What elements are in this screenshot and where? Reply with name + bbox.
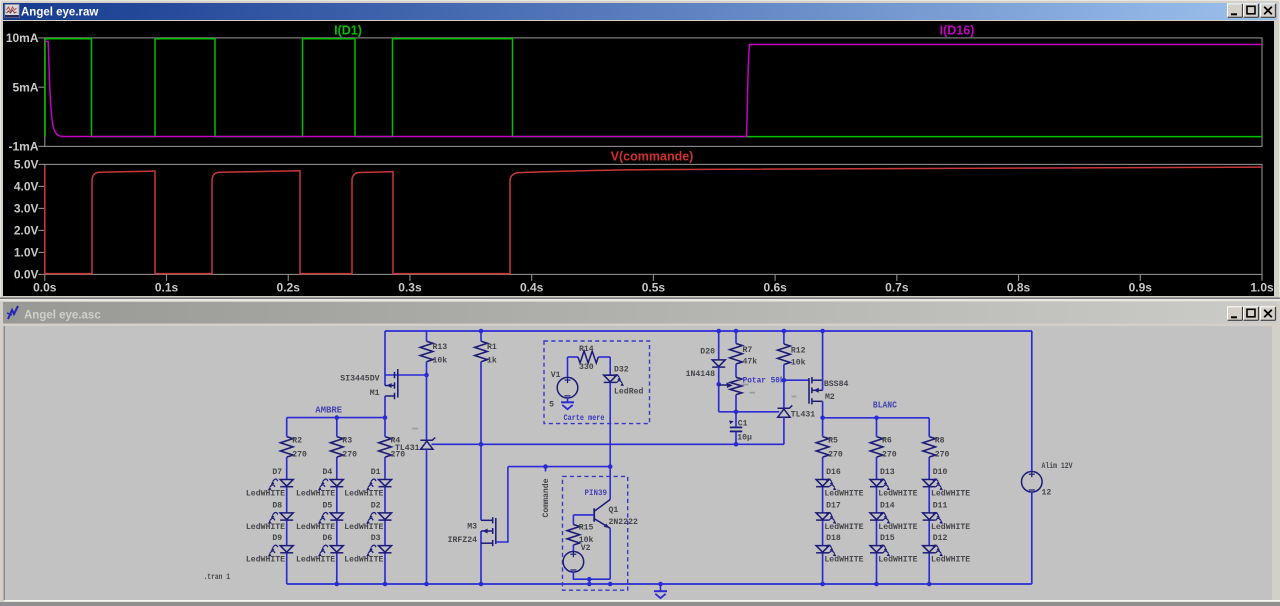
LED D6 [330, 546, 343, 553]
transistor M2 BSS84 (PMOS) [784, 379, 809, 381]
svg-text:Angel eye.asc: Angel eye.asc [24, 310, 101, 322]
resistor R14 [568, 356, 579, 358]
LED D16 [816, 480, 829, 487]
svg-text:BSS84: BSS84 [824, 380, 849, 389]
LED D32 LedRed [609, 357, 611, 375]
svg-text:47k: 47k [743, 356, 758, 366]
svg-text:Q1: Q1 [609, 506, 619, 515]
svg-text:D9: D9 [272, 534, 282, 543]
LED D15 [870, 546, 883, 553]
svg-text:LedWHITE: LedWHITE [344, 555, 383, 565]
svg-text:R14: R14 [579, 345, 594, 354]
svg-text:D6: D6 [323, 534, 333, 543]
source V1 [557, 377, 578, 398]
svg-text:I(D16): I(D16) [940, 24, 975, 38]
window buttons asc [1228, 307, 1243, 321]
svg-text:LedWHITE: LedWHITE [878, 489, 917, 499]
svg-text:LedWHITE: LedWHITE [246, 555, 285, 565]
wire V2 to emitter [573, 572, 610, 579]
svg-text:R5: R5 [828, 437, 838, 446]
window buttons raw [1228, 4, 1243, 17]
source Alim 12V [1031, 331, 1033, 472]
svg-text:LedWHITE: LedWHITE [246, 522, 285, 532]
svg-text:D16: D16 [826, 468, 841, 477]
junction ref-C1 [734, 442, 739, 447]
wire bottom ground bus [287, 583, 1032, 585]
wire column x=822.6 [822, 418, 824, 437]
resistor R1 [480, 331, 482, 341]
svg-text:V(commande): V(commande) [611, 150, 694, 164]
resistor R8 [923, 437, 936, 458]
title bar raw [3, 3, 1277, 20]
LED D12 [923, 546, 936, 553]
pane 1 box [45, 38, 1262, 146]
svg-text:0.2s: 0.2s [277, 281, 301, 295]
svg-text:D32: D32 [614, 366, 629, 375]
svg-text:D11: D11 [933, 501, 948, 510]
svg-text:12: 12 [1042, 489, 1052, 498]
y axis labels pane 1 [38, 37, 45, 39]
svg-text:D7: D7 [272, 468, 282, 477]
svg-text:0.0s: 0.0s [33, 281, 57, 295]
svg-text:M3: M3 [467, 523, 477, 532]
svg-text:TL431: TL431 [395, 444, 420, 453]
svg-text:D13: D13 [880, 468, 895, 477]
node Commande label [543, 464, 548, 469]
svg-text:V1: V1 [551, 371, 561, 380]
wire reference net (TL431 ref / C1 / TL431b anode) [432, 443, 784, 445]
svg-text:LedWHITE: LedWHITE [878, 522, 917, 532]
svg-text:LedWHITE: LedWHITE [931, 489, 970, 499]
wire column x=929.2 [928, 418, 930, 437]
svg-text:1k: 1k [487, 356, 497, 366]
svg-text:5.0V: 5.0V [14, 158, 39, 172]
schematic client area [5, 326, 1273, 600]
title bar asc [3, 302, 1277, 324]
svg-text:D20: D20 [700, 348, 715, 357]
plot client area [3, 21, 1274, 296]
wire column x=336.8 [336, 418, 338, 437]
wire column x=385.0 [384, 418, 386, 437]
svg-text:BLANC: BLANC [873, 400, 897, 411]
svg-text:0.9s: 0.9s [1129, 281, 1153, 295]
svg-text:D1: D1 [371, 468, 381, 477]
wire R1 down to ref net and M3 drain [480, 362, 482, 521]
junction M1 gate node [424, 373, 429, 378]
TL431 U1 [420, 438, 435, 441]
resistor R2 [280, 437, 293, 458]
svg-text:I(D1): I(D1) [334, 24, 362, 38]
junction bottom bus nodes [335, 582, 340, 587]
resistor R13 [426, 331, 428, 341]
svg-text:LedWHITE: LedWHITE [296, 489, 335, 499]
svg-text:D8: D8 [272, 501, 282, 510]
svg-text:D2: D2 [371, 501, 381, 510]
svg-text:M2: M2 [825, 393, 835, 402]
resistor R3 [330, 437, 343, 458]
svg-text:D5: D5 [323, 501, 333, 510]
svg-text:R6: R6 [882, 437, 892, 446]
svg-text:LedWHITE: LedWHITE [824, 489, 863, 499]
svg-text:D18: D18 [826, 534, 841, 543]
LED D10 [923, 480, 936, 487]
PIN39 dashed box [563, 476, 628, 590]
svg-text:3.0V: 3.0V [14, 202, 39, 216]
LED D9 [280, 546, 293, 553]
ground under V1 [567, 398, 569, 402]
svg-text:LedWHITE: LedWHITE [931, 555, 970, 565]
svg-text:5: 5 [549, 401, 554, 410]
LED D8 [280, 513, 293, 520]
magenta trace I(D16) [45, 42, 1262, 137]
resistor R7 47k [735, 331, 737, 344]
svg-text:0.7s: 0.7s [885, 281, 909, 295]
LED D7 [280, 480, 293, 487]
svg-text:0.0V: 0.0V [14, 268, 39, 282]
junction ref-R1 [479, 442, 484, 447]
junction BLANC nodes [820, 416, 825, 421]
svg-text:1.0s: 1.0s [1250, 281, 1274, 295]
svg-text:10k: 10k [433, 356, 448, 366]
svg-text:C1: C1 [738, 420, 748, 429]
window 1 frame [0, 0, 1280, 299]
svg-text:2.0V: 2.0V [14, 224, 39, 238]
resistor R5 [816, 437, 829, 458]
svg-text:LedWHITE: LedWHITE [878, 555, 917, 565]
svg-text:LedWHITE: LedWHITE [824, 555, 863, 565]
wire D20 cathode to pot wiper / bottom [718, 367, 720, 412]
svg-text:R2: R2 [292, 437, 302, 446]
wire M3 gate to commande [496, 467, 508, 542]
svg-text:270: 270 [882, 451, 897, 460]
LED D5 [330, 513, 343, 520]
resistor R4 [379, 437, 392, 458]
wire R13 to TL431 [426, 362, 428, 441]
resistor R12 10k [783, 331, 785, 344]
junction wiper [716, 382, 721, 387]
red trace V(commande) [45, 167, 1262, 274]
svg-text:1.0V: 1.0V [14, 246, 39, 260]
LED D17 [816, 513, 829, 520]
svg-text:SI3445DV: SI3445DV [340, 375, 379, 384]
svg-text:AMBRE: AMBRE [315, 405, 342, 416]
svg-text:330: 330 [579, 363, 594, 372]
junction M2 gate node [782, 378, 787, 383]
resistor R6 [870, 437, 883, 458]
wire column x=876.5 [876, 418, 878, 437]
svg-text:Potar 50k: Potar 50k [743, 376, 785, 386]
svg-text:0.8s: 0.8s [1007, 281, 1031, 295]
svg-text:0.1s: 0.1s [155, 281, 179, 295]
svg-text:D15: D15 [880, 534, 895, 543]
svg-text:LedWHITE: LedWHITE [931, 522, 970, 532]
svg-text:0.6s: 0.6s [763, 281, 787, 295]
transistor M3 IRFZ24 (NMOS) [480, 531, 482, 584]
svg-text:Alim 12V: Alim 12V [1042, 461, 1073, 471]
wire BLANC bus [823, 417, 930, 419]
ground [660, 584, 662, 591]
svg-text:270: 270 [828, 451, 843, 460]
svg-text:LedWHITE: LedWHITE [296, 555, 335, 565]
svg-text:1N4148: 1N4148 [686, 370, 715, 379]
svg-text:Angel eye.raw: Angel eye.raw [21, 7, 98, 19]
LED D2 [379, 513, 392, 520]
junction emitter net to bus [587, 577, 592, 582]
wire TL431 anode to ground bus [426, 449, 428, 584]
svg-text:R13: R13 [433, 343, 448, 352]
wire R12 to TL431b [783, 365, 785, 409]
junction pot bottom [734, 410, 739, 415]
wire TL431b anode to ref net [783, 417, 785, 444]
svg-text:4.0V: 4.0V [14, 180, 39, 194]
transistor M1 SI3445DV (PMOS) [384, 331, 386, 386]
potentiometer wiper arrow [719, 384, 728, 386]
x axis ticks and labels [44, 274, 46, 281]
svg-text:0.3s: 0.3s [398, 281, 422, 295]
asc file icon [8, 306, 18, 319]
y axis labels pane 2 [38, 163, 45, 165]
svg-text:Carte mere: Carte mere [564, 414, 605, 423]
svg-text:-1mA: -1mA [8, 140, 38, 154]
LED D14 [870, 513, 883, 520]
svg-text:D14: D14 [880, 501, 895, 510]
svg-text:10mA: 10mA [6, 31, 39, 45]
svg-text:LedWHITE: LedWHITE [246, 489, 285, 499]
svg-text:270: 270 [935, 451, 950, 460]
diode D20 1N4148 [718, 331, 720, 360]
svg-text:10µ: 10µ [737, 434, 752, 443]
svg-text:Commande: Commande [541, 478, 551, 517]
raw file icon [5, 5, 19, 18]
capacitor C1 10u [735, 412, 737, 427]
LED D13 [870, 480, 883, 487]
resistor R15 [572, 515, 574, 525]
wire pot bottom net [719, 411, 780, 413]
svg-text:0.4s: 0.4s [520, 281, 544, 295]
svg-text:LedWHITE: LedWHITE [344, 489, 383, 499]
svg-text:10k: 10k [791, 358, 806, 368]
transistor Q1 2N2222 (NPN) [609, 467, 611, 500]
svg-text:D17: D17 [826, 501, 841, 510]
svg-text:2N2222: 2N2222 [609, 518, 638, 527]
stray grey marks [412, 428, 418, 430]
svg-text:PIN39: PIN39 [585, 488, 608, 498]
wire Q1 emitter down [609, 528, 611, 579]
svg-text:5mA: 5mA [12, 80, 38, 94]
svg-text:D3: D3 [371, 534, 381, 543]
svg-text:R7: R7 [743, 346, 753, 355]
Carte mere dashed box [544, 341, 650, 424]
svg-text:IRFZ24: IRFZ24 [448, 536, 477, 545]
svg-text:V2: V2 [581, 544, 591, 553]
svg-text:R3: R3 [342, 437, 352, 446]
svg-text:R15: R15 [579, 524, 594, 533]
junction AMBRE nodes [335, 415, 340, 420]
LED D3 [379, 546, 392, 553]
LED D11 [923, 513, 936, 520]
wire D32 cathode down [609, 382, 611, 466]
svg-text:R8: R8 [935, 437, 945, 446]
svg-text:R1: R1 [487, 343, 497, 352]
wire AMBRE bus [287, 417, 385, 419]
svg-text:D12: D12 [933, 534, 948, 543]
green trace I(D1) [45, 39, 1262, 137]
LED D4 [330, 480, 343, 487]
LED D18 [816, 546, 829, 553]
wire commande horizontal [508, 466, 610, 468]
svg-text:.tran 1: .tran 1 [204, 572, 231, 582]
junction commande/D32/Q1 [608, 464, 613, 469]
pane 2 box [45, 164, 1262, 274]
svg-text:D10: D10 [933, 468, 948, 477]
svg-text:R12: R12 [791, 347, 806, 356]
svg-text:LedWHITE: LedWHITE [824, 522, 863, 532]
wire Q1 base [573, 514, 594, 516]
potentiometer Potar 50k [735, 364, 737, 377]
svg-text:0.5s: 0.5s [642, 281, 666, 295]
svg-text:270: 270 [342, 451, 357, 460]
svg-text:TL431: TL431 [791, 410, 816, 419]
LED D1 [379, 480, 392, 487]
TL431 U2 [778, 405, 793, 408]
svg-text:LedWHITE: LedWHITE [344, 522, 383, 532]
window 2 frame [0, 299, 1280, 606]
svg-text:270: 270 [292, 451, 307, 460]
wire top supply bus [385, 330, 1032, 332]
svg-text:M1: M1 [370, 389, 380, 398]
wire column x=286.7 [286, 418, 288, 437]
svg-text:D4: D4 [323, 468, 333, 477]
svg-text:LedRed: LedRed [614, 387, 643, 397]
svg-text:LedWHITE: LedWHITE [296, 522, 335, 532]
